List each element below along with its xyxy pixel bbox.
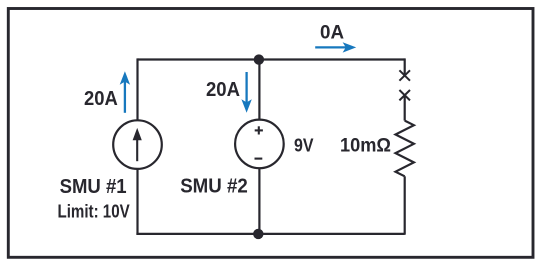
voltage source SMU2 minus sign	[255, 158, 263, 160]
wire bottom bus	[136, 233, 404, 235]
blue current arrow down (SMU2 20A)	[241, 72, 251, 113]
wire top bus	[138, 58, 405, 60]
wire SMU1 top stub	[136, 58, 138, 120]
blue current arrow up (SMU1 20A)	[120, 71, 130, 113]
junction dot top node	[254, 54, 264, 64]
voltage source SMU2 circle U2	[235, 120, 284, 169]
wire right branch upper stub	[404, 58, 406, 76]
wire SMU2 top stub	[258, 60, 260, 120]
junction dot bottom node	[253, 229, 263, 239]
wire SMU1 bottom stub	[136, 168, 138, 234]
svg-text:9V: 9V	[294, 136, 314, 156]
svg-text:10mΩ: 10mΩ	[340, 136, 391, 157]
wire SMU2 bottom stub	[258, 168, 260, 234]
svg-text:SMU #1: SMU #1	[60, 176, 127, 198]
break mark X2	[399, 90, 410, 100]
svg-text:20A: 20A	[206, 79, 240, 101]
current source SMU1 circle U1	[113, 120, 162, 169]
resistor R 10mOhm zigzag	[396, 121, 414, 177]
blue current arrow right (0A)	[315, 42, 356, 52]
wire between break marks and resistor	[404, 95, 406, 121]
voltage source SMU2 plus sign	[255, 126, 263, 134]
current source SMU1 arrow	[133, 128, 142, 161]
break mark X1	[399, 70, 410, 80]
wire resistor bottom stub	[404, 176, 406, 234]
svg-text:Limit: 10V: Limit: 10V	[58, 201, 131, 222]
svg-text:SMU #2: SMU #2	[180, 175, 248, 197]
svg-text:0A: 0A	[320, 23, 344, 44]
svg-text:20A: 20A	[84, 88, 118, 110]
